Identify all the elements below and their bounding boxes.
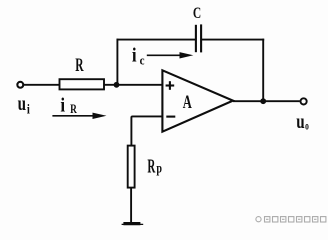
capacitor C [196, 24, 201, 52]
wire op-amp output [233, 100, 300, 102]
resistor Rp [128, 146, 135, 188]
svg-text:R: R [70, 103, 78, 117]
op-amp plus sign [166, 81, 175, 90]
label iR with arrow [52, 94, 106, 119]
svg-text:o: o [305, 120, 309, 133]
wire Rp to ground [130, 188, 132, 223]
op-amp minus sign [166, 116, 175, 118]
wire junction up to feedback [116, 39, 118, 86]
svg-text:R: R [75, 55, 84, 76]
wire minus input [131, 116, 162, 146]
watermark [256, 217, 326, 222]
label ic with arrow [132, 44, 193, 67]
svg-text:p: p [156, 160, 162, 176]
svg-text:i: i [27, 101, 31, 116]
label Rp [147, 156, 162, 177]
input terminal ui [17, 82, 23, 88]
svg-text:i: i [60, 94, 65, 117]
label uo [296, 110, 309, 133]
wire feedback right segment [202, 39, 264, 41]
wire input to R [24, 84, 60, 86]
output terminal uo [301, 98, 307, 104]
wire feedback down to output node [262, 39, 264, 101]
label ui [18, 92, 31, 117]
wire feedback top left segment [117, 39, 196, 41]
svg-text:u: u [296, 110, 304, 133]
svg-text:A: A [183, 93, 192, 113]
svg-text:i: i [132, 44, 137, 67]
wire R to op-amp + input [104, 84, 162, 86]
op-amp A [162, 70, 233, 131]
svg-text:c: c [140, 53, 145, 68]
node junction at R output [114, 82, 120, 88]
resistor R [60, 79, 105, 89]
node output junction [260, 98, 266, 104]
ground [122, 222, 144, 226]
svg-text:u: u [18, 92, 26, 115]
svg-text:C: C [193, 5, 201, 22]
svg-text:R: R [147, 156, 155, 177]
